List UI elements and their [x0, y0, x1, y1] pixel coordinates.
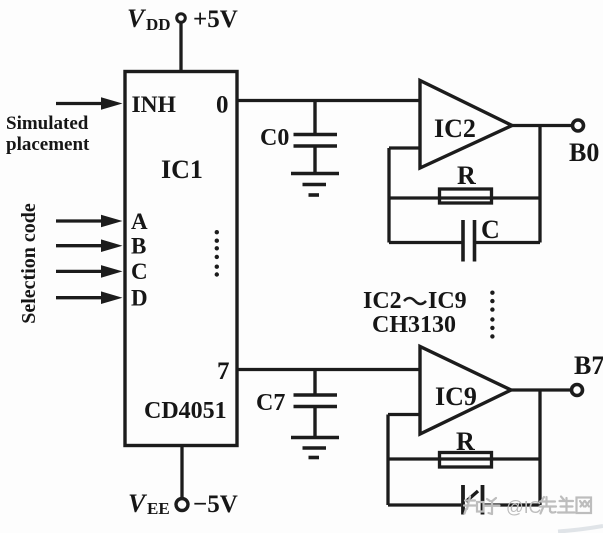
svg-text:R: R [457, 161, 476, 190]
input arrow A [56, 215, 123, 228]
svg-text:IC9: IC9 [428, 288, 467, 314]
ground below C0 [291, 174, 339, 196]
svg-text:0: 0 [216, 92, 229, 119]
svg-text:A: A [131, 209, 148, 234]
wire IC2 inverting input [389, 146, 420, 149]
input arrow INH [56, 97, 123, 110]
op-amp IC2 [420, 81, 512, 169]
svg-text:Selection code: Selection code [18, 203, 40, 324]
faint watermark arc bottom right [558, 526, 603, 532]
svg-text:EE: EE [147, 499, 170, 518]
label VDD [127, 4, 171, 34]
output terminal B7 [572, 385, 583, 396]
capacitor C in IC2 feedback [389, 220, 540, 262]
power terminal VEE [176, 499, 188, 511]
svg-text:IC9: IC9 [435, 382, 477, 411]
svg-text:D: D [131, 286, 148, 311]
svg-text:placement: placement [6, 134, 90, 155]
feedback right wire IC2 [538, 126, 541, 243]
svg-text:IC2: IC2 [434, 114, 476, 143]
wire IC2 output [512, 124, 572, 127]
svg-text:B: B [131, 234, 146, 259]
wire IC9 output [511, 388, 571, 391]
wire VDD to IC1 top [179, 22, 182, 73]
ellipsis dots IC2..IC9 [490, 291, 494, 339]
watermark zhihu [464, 497, 500, 515]
svg-text:DD: DD [146, 15, 171, 34]
svg-text:IC1: IC1 [161, 155, 203, 184]
svg-text:CH3130: CH3130 [372, 312, 456, 338]
svg-text:Simulated: Simulated [6, 113, 89, 134]
resistor R in IC2 feedback [389, 189, 540, 203]
feedback left wire IC9 [386, 415, 389, 506]
ellipsis dots inside IC1 [215, 230, 219, 277]
op-amp IC9 [420, 347, 511, 435]
IC1 CD4051 body [125, 72, 237, 446]
svg-text:B0: B0 [569, 138, 599, 167]
label VEE [128, 489, 170, 518]
svg-text:C: C [131, 259, 148, 284]
feedback left wire IC2 [387, 148, 390, 243]
resistor R in IC9 feedback [388, 453, 540, 468]
capacitor C0 [294, 101, 338, 174]
output terminal B0 [573, 120, 584, 131]
svg-text:V: V [128, 489, 148, 518]
capacitor C7 [294, 370, 338, 438]
input arrow B [56, 239, 123, 252]
svg-text:CD4051: CD4051 [144, 398, 227, 424]
svg-text:V: V [127, 4, 147, 33]
wire IC9 inverting input [388, 413, 420, 416]
svg-text:IC2: IC2 [363, 288, 402, 314]
capacitor C in IC9 feedback [388, 485, 540, 515]
wire pin 0 to IC2 input [237, 99, 420, 102]
svg-text:C7: C7 [256, 390, 285, 416]
svg-text:B7: B7 [574, 351, 603, 380]
label IC2~IC9 [363, 288, 467, 314]
wire IC1 to VEE [180, 445, 183, 499]
svg-text:C0: C0 [260, 125, 289, 151]
label Simulated placement [6, 113, 90, 155]
wire pin 7 to IC9 input [237, 368, 420, 371]
power terminal VDD [177, 14, 186, 23]
svg-text:+5V: +5V [193, 6, 238, 33]
svg-text:7: 7 [217, 358, 230, 385]
input arrow C [56, 265, 123, 278]
svg-text:−5V: −5V [193, 491, 238, 518]
input arrow D [56, 291, 123, 304]
svg-text:INH: INH [132, 92, 176, 118]
svg-text:R: R [456, 427, 475, 456]
feedback right wire IC9 [538, 390, 541, 505]
svg-text:C: C [481, 215, 500, 244]
ground below C7 [291, 438, 339, 458]
svg-text:@IC: @IC [506, 497, 541, 517]
